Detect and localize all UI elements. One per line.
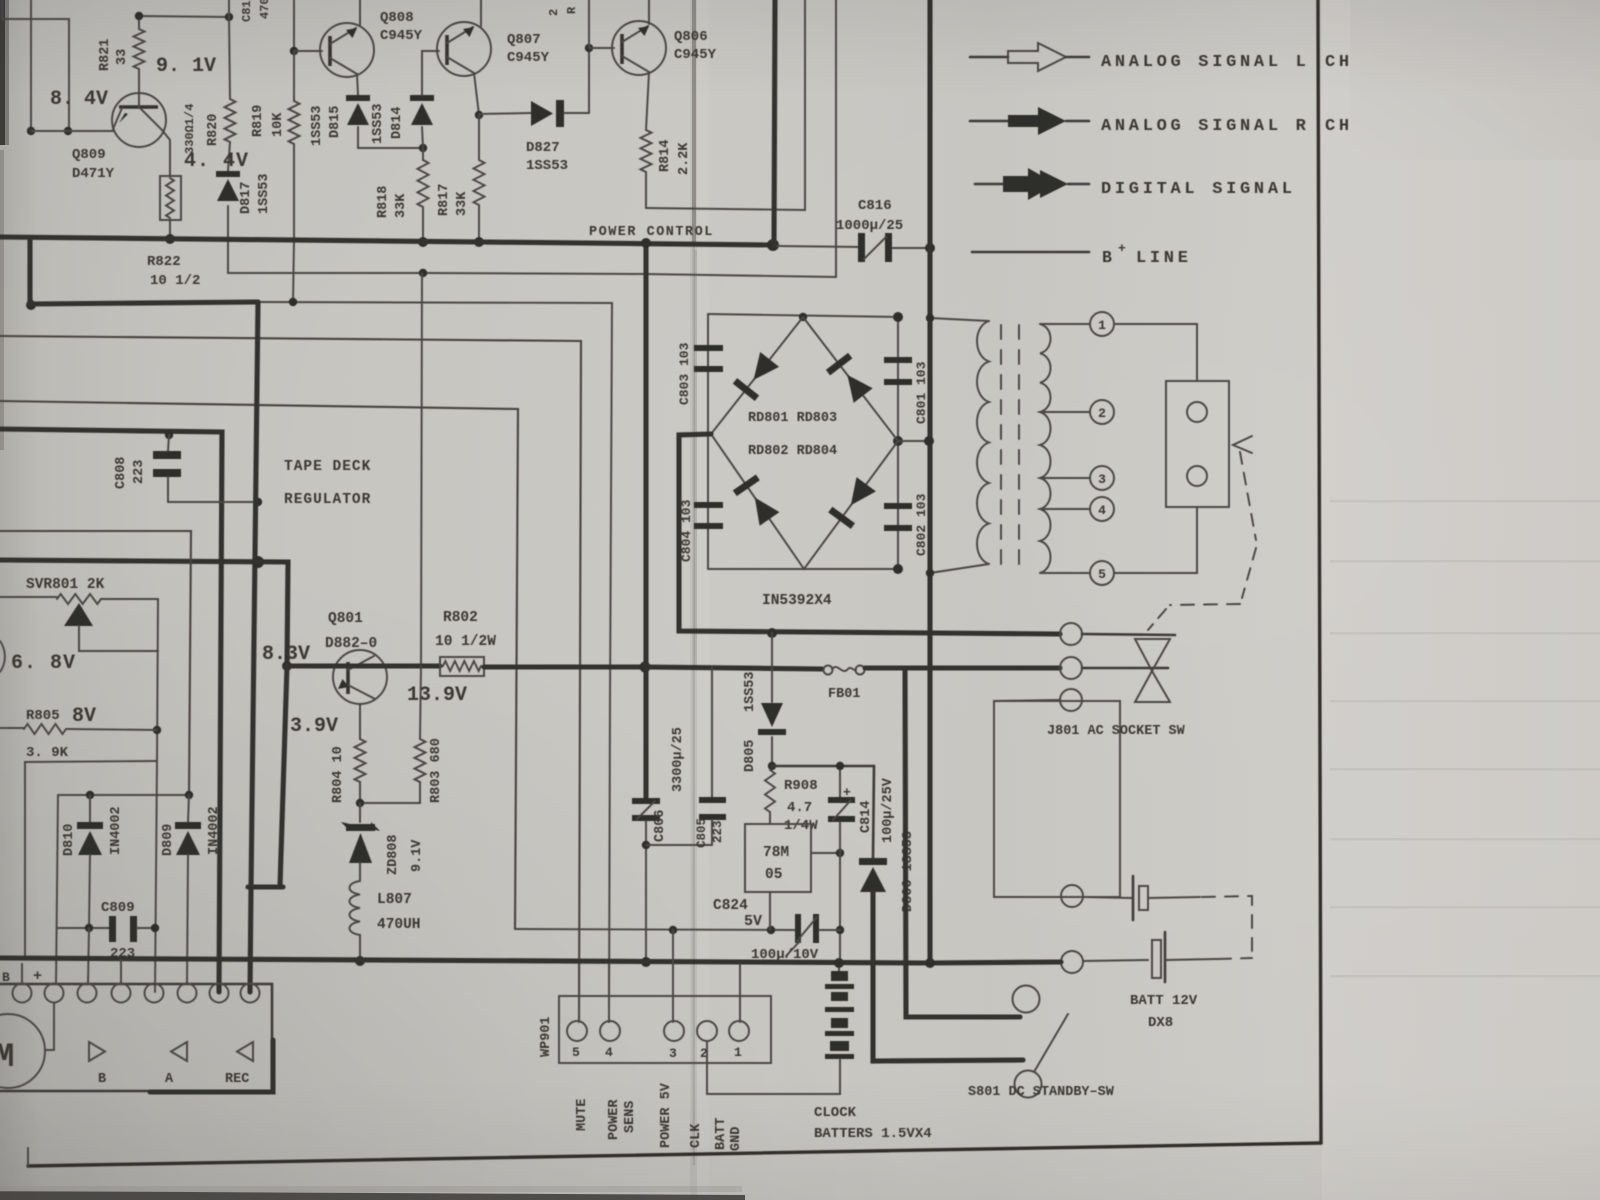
svg-text:Q806: Q806 <box>674 29 708 45</box>
wire x58 drop <box>56 795 58 984</box>
resistor R802 boxed 10 1/2W <box>440 657 484 676</box>
svg-text:D471Y: D471Y <box>72 166 115 182</box>
svg-text:GND: GND <box>729 1127 744 1151</box>
resistor R817 33K <box>478 115 480 160</box>
node clock battery bus junction <box>834 958 844 968</box>
node R818 bus junction <box>418 237 428 247</box>
svg-text:D817: D817 <box>239 182 254 214</box>
wire Q806 collector to top edge <box>648 0 650 24</box>
node junction at Q809 base rail <box>27 127 35 135</box>
secondary tap 3 <box>1040 477 1090 479</box>
svg-text:IN4002: IN4002 <box>207 806 222 855</box>
svg-text:1: 1 <box>1098 318 1106 333</box>
svg-text:CH: CH <box>1325 53 1353 72</box>
wire D817 cathode down to node rail <box>227 206 229 273</box>
svg-text:5: 5 <box>1098 567 1106 582</box>
svg-text:1/4W: 1/4W <box>784 818 818 834</box>
wire Q807 base to D814 <box>422 51 439 95</box>
capacitor C802 103 <box>884 503 912 531</box>
svg-text:13.9V: 13.9V <box>407 684 467 707</box>
clock battery stack <box>825 964 854 1059</box>
wire bridge output drop x772 <box>771 633 773 702</box>
svg-text:2: 2 <box>1098 406 1106 421</box>
wire D827 cathode to Q806 base node <box>564 48 589 113</box>
svg-text:1SS53: 1SS53 <box>743 671 758 712</box>
wire x589 to top edge <box>588 0 590 48</box>
wire bridge left column <box>707 314 709 569</box>
wire node rail y273 <box>228 273 836 277</box>
wire AC2 to switch <box>1082 667 1168 670</box>
legend analog L arrow <box>970 43 1089 71</box>
wire y337 rail to pin5 drop <box>0 336 581 1022</box>
rectifier diode RD802 (bottom-left arm) <box>745 491 780 526</box>
svg-text:RD801 RD803: RD801 RD803 <box>748 411 837 426</box>
motor M <box>0 1014 45 1088</box>
wire R802 to thick vertical <box>484 664 646 669</box>
wire D815 to R818 rail <box>358 127 423 148</box>
wire C808 bottom to x258 rail <box>168 501 258 503</box>
wire pin4 drop x612-x609 <box>609 303 612 1022</box>
wire pin3 drop <box>672 930 674 1022</box>
svg-text:+: + <box>843 785 851 800</box>
svg-text:1SS53: 1SS53 <box>257 173 272 214</box>
svg-text:D810: D810 <box>62 824 77 856</box>
node Q806 base <box>585 44 593 52</box>
svg-text:IN4002: IN4002 <box>109 806 124 855</box>
node thick crossing x258 y562 <box>252 556 264 568</box>
svg-text:D815: D815 <box>328 106 343 138</box>
node R817 bus junction <box>474 237 484 247</box>
wire R908 top rail <box>772 765 874 768</box>
svg-text:BATT 12V: BATT 12V <box>1130 993 1198 1009</box>
legend analog R arrow <box>970 107 1089 135</box>
secondary tap 2 <box>1040 411 1090 413</box>
wire y403 rail to 5V corner <box>0 401 518 929</box>
transformer core dashed lines <box>1000 325 1002 565</box>
transistor Q807 <box>437 22 491 76</box>
svg-text:D805: D805 <box>743 740 758 772</box>
wire pin1 to plug <box>1114 324 1197 381</box>
transformer primary winding <box>977 321 989 564</box>
capacitor C814 100u/25V <box>828 766 855 853</box>
wire thick x288 below Q801 rail <box>280 666 287 886</box>
svg-text:C814: C814 <box>859 801 874 833</box>
node 5V C824 junction <box>836 926 844 934</box>
wire x157 elbow to x25 drop <box>25 761 157 958</box>
wire vertical x229 from top edge <box>228 0 230 17</box>
svg-text:R819: R819 <box>251 105 266 137</box>
svg-text:CLOCK: CLOCK <box>814 1105 857 1121</box>
transformer secondary winding <box>1040 324 1051 573</box>
capacitor C801 103 <box>884 357 912 385</box>
resistor R822 (boxed) <box>160 176 181 220</box>
wire x422 drop to Q801 collector rail <box>421 273 422 666</box>
svg-text:223: 223 <box>132 460 147 484</box>
wire thick corner x30 from power bus <box>27 238 32 305</box>
dashed battery link <box>1148 897 1200 898</box>
capacitor C824 100u/10V <box>795 914 840 943</box>
wire x157 continuation to connector <box>155 761 157 992</box>
wire to backup battery <box>1083 897 1132 898</box>
node C809 junctions <box>85 924 93 932</box>
node power bus / x775 junction <box>767 239 779 251</box>
wire Q808 collector to top edge <box>359 0 361 25</box>
svg-text:4: 4 <box>605 1045 613 1060</box>
capacitor C809 223 <box>58 916 155 942</box>
svg-text:C808: C808 <box>114 457 129 489</box>
svg-text:Q807: Q807 <box>507 32 541 48</box>
wire bridge DC out to B+ <box>898 440 930 442</box>
wire pin3 to J801 box <box>994 700 1060 701</box>
wire AC1 thick from bridge <box>679 434 935 633</box>
svg-text:C945Y: C945Y <box>507 50 550 66</box>
wire node to D827 anode <box>479 113 531 114</box>
svg-text:BATT: BATT <box>714 1118 729 1150</box>
node Q801 base junction <box>282 661 292 671</box>
diode D805 1SS53 <box>761 703 783 727</box>
svg-text:B: B <box>2 970 10 985</box>
wire C805 branch <box>711 667 713 797</box>
svg-text:R804 10: R804 10 <box>331 746 346 803</box>
wire D814 anode to node <box>422 127 423 148</box>
svg-text:33: 33 <box>115 49 130 65</box>
svg-text:C802 103: C802 103 <box>914 493 929 556</box>
wire D806 down and elbow to standby switch <box>873 892 1023 1061</box>
svg-text:1000μ/25: 1000μ/25 <box>836 218 903 234</box>
wire AC1 to switch <box>1082 634 1175 635</box>
wire rail y531 to x191 drop <box>0 531 191 795</box>
svg-text:3: 3 <box>669 1046 677 1061</box>
wire R822 to power bus <box>169 220 171 238</box>
svg-text:POWER CONTROL: POWER CONTROL <box>589 225 714 240</box>
svg-text:REC: REC <box>225 1072 249 1087</box>
connector J801 box <box>994 701 1120 897</box>
svg-text:CH: CH <box>1325 117 1353 136</box>
svg-text:4.7: 4.7 <box>787 800 812 816</box>
resistor R814 2.2K <box>641 130 652 172</box>
svg-text:R817: R817 <box>437 184 452 216</box>
node y273 junctions <box>419 269 427 277</box>
svg-text:1: 1 <box>734 1045 742 1060</box>
wire thick elbow x280 to x251 <box>248 884 283 889</box>
svg-text:6. 8V: 6. 8V <box>11 652 76 675</box>
svg-text:R821: R821 <box>98 39 113 71</box>
wire D805 to R908 rail <box>771 737 773 766</box>
wire box rail x836 <box>835 0 837 277</box>
potentiometer SVR801 <box>0 594 158 651</box>
wire C816 to B+ bus <box>892 247 930 249</box>
node C808 top junction <box>165 431 173 439</box>
wire motor to pin2 <box>45 1003 54 1050</box>
node pin3 5V junction <box>669 926 677 934</box>
direction triangle B <box>89 1042 105 1061</box>
resistor R819 10K body <box>293 51 295 101</box>
svg-text:470: 470 <box>258 0 272 19</box>
svg-text:R: R <box>565 6 579 14</box>
AC plug pin bottom <box>1187 466 1207 486</box>
resistor R803 680 <box>420 666 421 739</box>
legend digital arrow <box>975 168 1089 200</box>
wire rail y795 <box>58 794 189 796</box>
transistor Q809 <box>112 93 166 147</box>
svg-text:R820: R820 <box>206 114 221 146</box>
svg-text:IN5392X4: IN5392X4 <box>762 593 832 609</box>
AC plug box <box>1166 381 1229 507</box>
node C814 top <box>836 762 844 770</box>
wire thick branch y302 <box>30 302 258 304</box>
node L807 ground junction <box>355 956 365 966</box>
rectifier diode RD801 (top-left arm) <box>744 352 779 387</box>
wire Q807 emitter to node <box>474 73 479 115</box>
transistor Q808 <box>320 23 374 77</box>
svg-text:+: + <box>1118 241 1126 256</box>
wire B+ thick vertical x930 <box>927 0 932 963</box>
resistor R820 330ohm <box>229 17 230 99</box>
ground bus right segment <box>930 962 1061 963</box>
svg-text:1SS53: 1SS53 <box>526 158 568 174</box>
power control bus <box>0 237 773 245</box>
battery BATT 12V lower cell <box>1152 932 1217 982</box>
svg-text:470UH: 470UH <box>377 917 421 933</box>
socket pin circle 3 <box>1060 689 1082 711</box>
svg-text:REGULATOR: REGULATOR <box>284 492 371 508</box>
wire Q801 collector rail thick <box>287 663 440 668</box>
svg-text:+: + <box>33 968 42 985</box>
AC plug pin top <box>1187 402 1207 422</box>
wire thick rail y429 to x222 drop <box>0 429 222 992</box>
svg-text:D814: D814 <box>390 107 405 139</box>
wire thick D806 branch <box>873 766 874 858</box>
wire bridge top rail <box>708 314 898 317</box>
diode D809 IN4002 <box>175 795 201 984</box>
node R804/R803 junction <box>356 799 364 807</box>
wire R821 top rail <box>139 16 229 17</box>
resistor R805 3.9K <box>0 724 157 734</box>
node x646 bus junction <box>641 238 651 248</box>
svg-text:CLK: CLK <box>689 1123 704 1148</box>
wire x294 below bus to node <box>293 241 294 302</box>
svg-text:A: A <box>165 1072 174 1087</box>
svg-text:33K: 33K <box>455 191 470 216</box>
node Q807 emitter junction <box>475 111 483 119</box>
svg-text:1SS53: 1SS53 <box>310 105 325 146</box>
svg-text:3: 3 <box>1098 472 1106 487</box>
wire R814 bottom to x805 rail <box>646 0 805 210</box>
svg-text:SVR801 2K: SVR801 2K <box>26 577 105 593</box>
socket pin circle bottom <box>1061 885 1083 907</box>
node x840 junction <box>836 849 844 857</box>
svg-text:R908: R908 <box>784 778 818 794</box>
svg-text:M: M <box>0 1039 14 1077</box>
svg-text:C809: C809 <box>101 900 135 916</box>
svg-text:C816: C816 <box>858 198 892 214</box>
svg-text:WP901: WP901 <box>539 1016 554 1057</box>
tape connector pins <box>13 984 32 1003</box>
inductor L807 470UH <box>350 881 361 960</box>
wire vertical x294 top <box>293 0 295 51</box>
svg-text:B: B <box>98 1072 106 1087</box>
svg-text:S801 DC STANDBY–SW: S801 DC STANDBY–SW <box>968 1085 1115 1100</box>
legend B+ line <box>972 251 1089 254</box>
rectifier diode RD803 (top-right arm) <box>838 368 873 403</box>
socket pin circle AC2 <box>1060 657 1082 679</box>
svg-text:C806: C806 <box>653 810 668 842</box>
diode D814 <box>410 95 434 101</box>
node primary bottom junction <box>926 569 934 577</box>
wire Q808 base <box>294 50 322 52</box>
secondary tap 1 <box>1040 323 1090 325</box>
wire 78M05 bottom to 5V rail <box>769 892 771 930</box>
resistor R908 4.7 1/4W <box>765 770 775 812</box>
wire top-left corner L <box>2 0 69 131</box>
svg-text:C801 103: C801 103 <box>914 361 929 424</box>
capacitor C808 223 <box>153 435 181 502</box>
direction triangle A <box>171 1042 187 1061</box>
wire bridge bottom rail <box>708 568 898 570</box>
wire Q807 collector to top edge <box>480 0 482 26</box>
AC plug arrow <box>1233 436 1252 453</box>
svg-text:R814: R814 <box>658 140 673 172</box>
svg-text:LINE: LINE <box>1136 249 1192 268</box>
diode D810 IN4002 <box>77 795 103 928</box>
svg-text:05: 05 <box>765 867 782 883</box>
wire thick vertical x646 <box>643 241 648 800</box>
svg-text:R802: R802 <box>443 610 478 626</box>
svg-text:D809: D809 <box>161 824 176 856</box>
wire 5V rail <box>515 929 796 930</box>
direction triangle REC <box>237 1042 253 1061</box>
svg-text:1SS53: 1SS53 <box>371 103 386 144</box>
schematic right border <box>1318 0 1321 1143</box>
svg-text:8.3V: 8.3V <box>262 643 310 666</box>
svg-text:ZD808: ZD808 <box>386 834 401 875</box>
wire Q801 emitter to R804 <box>359 704 361 739</box>
svg-text:R818: R818 <box>376 186 391 218</box>
diode D827 <box>531 100 564 127</box>
svg-text:3.9V: 3.9V <box>290 715 338 738</box>
node R908 rail left <box>768 762 776 770</box>
svg-text:2: 2 <box>547 9 561 16</box>
fuse FB801 <box>824 666 865 675</box>
wire thick vertical x775 <box>774 0 775 245</box>
svg-text:BATTERS 1.5VX4: BATTERS 1.5VX4 <box>814 1126 932 1142</box>
wire pin1 drop <box>739 964 741 1022</box>
schematic bottom border <box>28 1143 1321 1166</box>
wire pin stubs <box>21 964 23 984</box>
wire Q808 emitter to D815 <box>357 74 358 95</box>
transistor (edge, 6.8V) <box>0 641 5 672</box>
svg-text:8V: 8V <box>72 705 96 728</box>
wire pin5 drop <box>578 964 580 1022</box>
wire thick vertical x258 <box>251 302 258 890</box>
node Q808 base <box>290 47 298 55</box>
svg-text:DIGITAL SIGNAL: DIGITAL SIGNAL <box>1101 180 1296 199</box>
wire SVR801 right drop <box>157 599 158 761</box>
svg-text:C803 103: C803 103 <box>677 342 692 405</box>
svg-text:D827: D827 <box>526 140 560 156</box>
ground bus thick <box>0 958 930 963</box>
node bridge corners <box>799 313 807 321</box>
wire Q809 base rail <box>31 130 114 132</box>
regulator 78M05 <box>745 824 811 892</box>
svg-text:B: B <box>1102 248 1112 267</box>
svg-text:78M: 78M <box>763 845 789 861</box>
switch S801 standby <box>1013 986 1069 1098</box>
wire pin2 to clock battery <box>707 1041 840 1094</box>
wire thick x258 lower to connector <box>250 890 251 992</box>
zener diode ZD808 9.1V <box>341 803 380 881</box>
capacitor C816 1000u/25 <box>858 233 892 262</box>
wire pin4 drop below bus <box>608 964 610 1022</box>
tape connector box <box>0 984 272 1091</box>
svg-text:DX8: DX8 <box>1148 1015 1173 1031</box>
svg-text:4: 4 <box>1098 503 1106 518</box>
node R822 bus junction <box>165 234 175 244</box>
svg-text:4V: 4V <box>84 88 108 111</box>
svg-text:POWER: POWER <box>607 1099 622 1140</box>
wire Q809 emitter to R822 <box>162 130 170 176</box>
wire ground bus to battery <box>1083 960 1148 961</box>
wire bridge diamond <box>711 317 898 569</box>
svg-text:10 1/2: 10 1/2 <box>150 273 200 289</box>
svg-text:R803 680: R803 680 <box>429 738 444 803</box>
svg-text:8.: 8. <box>50 88 74 111</box>
capacitor C805 223 <box>699 797 726 845</box>
node C808 x258 junction <box>254 498 262 506</box>
wire AC2 thick with fuse FB801 <box>646 667 822 669</box>
svg-text:C805: C805 <box>695 818 709 848</box>
node R818 top <box>419 144 427 152</box>
node C816 B+ junction <box>925 243 935 253</box>
wire AC2 thick right <box>865 665 1060 670</box>
svg-text:4. 4V: 4. 4V <box>184 150 249 173</box>
node primary top junction <box>926 314 934 322</box>
node R805 junction <box>153 726 161 734</box>
svg-text:POWER 5V: POWER 5V <box>659 1082 674 1148</box>
battery BATT 12V upper cell <box>1133 876 1148 920</box>
svg-text:Q808: Q808 <box>380 10 414 26</box>
svg-text:100μ/25V: 100μ/25V <box>881 777 896 843</box>
resistor R804 10 <box>355 739 366 782</box>
socket pin circle AC1 <box>1060 623 1082 645</box>
diode D817 <box>216 171 240 177</box>
transistor Q801 <box>333 650 387 704</box>
resistor R821 <box>138 16 140 29</box>
svg-text:L807: L807 <box>377 892 412 908</box>
node 78M05 5V junction <box>767 926 775 934</box>
svg-text:TAPE DECK: TAPE DECK <box>284 459 371 475</box>
svg-text:R822: R822 <box>147 254 181 270</box>
svg-text:C81: C81 <box>240 0 254 22</box>
svg-text:ANALOG SIGNAL R: ANALOG SIGNAL R <box>1101 117 1310 136</box>
svg-text:5: 5 <box>572 1045 580 1060</box>
node D805 tap <box>767 628 777 638</box>
diode D815 <box>346 95 370 101</box>
svg-text:Q801: Q801 <box>328 611 363 627</box>
node x293 junction <box>289 298 297 306</box>
wire 78M05 output right <box>811 852 840 854</box>
wire thick x905 from AC2 <box>905 668 1020 1017</box>
node R802 bus junction <box>640 662 651 673</box>
svg-text:9. 1V: 9. 1V <box>156 55 216 78</box>
secondary tap 4 <box>1040 508 1090 510</box>
svg-text:RD802 RD804: RD802 RD804 <box>748 444 837 459</box>
node bridge B+ junction <box>924 436 934 446</box>
wire y302 thin continuation <box>258 302 612 303</box>
transistor Q806 <box>612 21 666 75</box>
wire vertical from top edge to Q809 base <box>30 0 32 131</box>
wire thick rail y560 to x288 drop <box>0 560 288 666</box>
